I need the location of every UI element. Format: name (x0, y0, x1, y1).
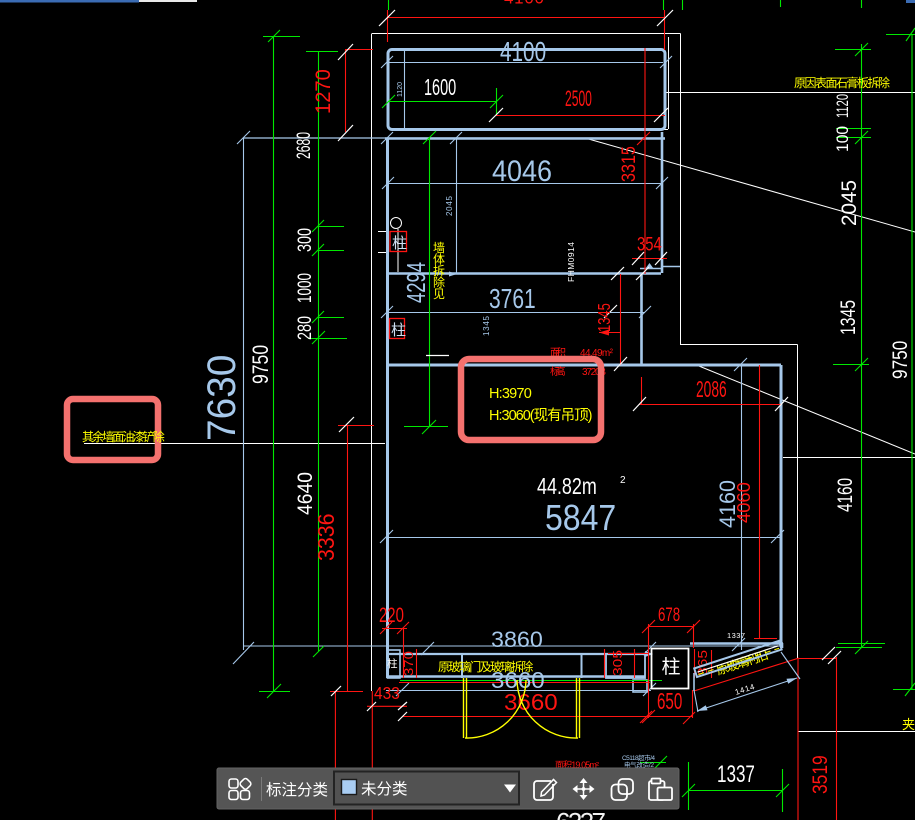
svg-text:44.82m: 44.82m (537, 474, 597, 500)
door threshold line y268 (640, 268, 661, 270)
red dim 365 ext b (711, 650, 713, 678)
dropdown box (334, 772, 519, 805)
grid line green x273 (273, 36, 275, 692)
wall white bottom right horizontal (798, 731, 915, 733)
red dim 305 ext b (634, 649, 636, 678)
svg-text:3519: 3519 (810, 755, 833, 794)
tilted leaf rect (694, 641, 781, 677)
svg-text:4160: 4160 (833, 478, 857, 512)
column box right (652, 649, 689, 689)
tick 7630 bottom (233, 642, 254, 664)
svg-text:1270: 1270 (312, 69, 335, 114)
dim 2086 red line (639, 404, 781, 406)
leaf yellow dashes (698, 648, 779, 674)
tick red4100 l (379, 10, 395, 26)
top edge green tick x682 (682, 0, 684, 10)
svg-text:未分类: 未分类 (361, 780, 408, 798)
red bar y638 (754, 638, 777, 640)
svg-text:3761: 3761 (489, 284, 536, 315)
dim 5847 line (386, 537, 781, 539)
tick 354 l (632, 252, 644, 265)
door jamb mid right (581, 654, 583, 678)
wall cyan sill top y648 (386, 653, 645, 655)
svg-text:3336: 3336 (313, 513, 339, 561)
dim 1337 ext left (688, 762, 690, 810)
top edge green tick x388 (388, 0, 390, 10)
wall cyan sill bottom y678 (386, 675, 645, 678)
tick 4100 left (381, 56, 393, 68)
door leaf left (463, 678, 465, 738)
wall white right vertical lower (797, 345, 799, 659)
svg-text:1120: 1120 (834, 94, 853, 118)
vestibule glass line (668, 37, 670, 129)
red ext 433 b (371, 691, 373, 820)
red bar y691 (330, 691, 363, 693)
green sill line (400, 680, 662, 682)
dim 3315 red line x645 (644, 48, 646, 274)
svg-text:2045: 2045 (838, 180, 861, 226)
red tick 678 l (642, 620, 655, 633)
wall white top horizontal (372, 33, 681, 35)
svg-text:678: 678 (658, 605, 680, 626)
svg-text:2045: 2045 (445, 195, 454, 216)
door jamb x611 (606, 654, 645, 678)
tick 3761 left (381, 306, 393, 318)
tick 3660red l (398, 712, 407, 721)
tick 5847 left (380, 530, 393, 543)
svg-text:1337: 1337 (717, 761, 755, 788)
red horizontal y658 (799, 658, 836, 660)
tick 4100 right (660, 56, 672, 68)
tick x318 y51 (306, 51, 338, 53)
svg-text:2680: 2680 (295, 132, 315, 159)
tick 2500 r (654, 108, 668, 122)
svg-text:柱: 柱 (392, 235, 407, 252)
dim 354 red line (632, 258, 667, 260)
marker box middle (461, 359, 601, 440)
dim 4046 line (388, 183, 662, 185)
tick 3860 b (643, 642, 656, 655)
cross x318 y651 (313, 646, 324, 657)
dim 3860 line (243, 645, 781, 647)
svg-text:1345: 1345 (836, 300, 860, 335)
tick wall y364 x620 (614, 357, 627, 371)
svg-text:墙体拆除见: 墙体拆除见 (433, 241, 445, 301)
svg-text:1345: 1345 (595, 303, 615, 332)
svg-text:354: 354 (637, 234, 662, 255)
svg-text:2086: 2086 (696, 378, 727, 403)
wall cyan right vertical x781 (780, 365, 783, 643)
white leader diagonal top (585, 138, 915, 232)
red tick 220 a (380, 622, 392, 634)
tick 5847 right (771, 530, 784, 543)
red corner y49 (345, 49, 373, 51)
svg-text:夹胶: 夹胶 (902, 717, 915, 732)
icon copy (612, 779, 634, 800)
svg-text:原玻璃门及玻璃拆除: 原玻璃门及玻璃拆除 (438, 659, 533, 674)
red 305 top line (608, 653, 648, 655)
door jamb left box (388, 650, 401, 678)
svg-text:4046: 4046 (492, 155, 552, 189)
svg-text:9750: 9750 (249, 345, 273, 384)
tick 7630 top (237, 131, 250, 144)
grid line green x861 (861, 44, 863, 647)
red ext x665 (664, 10, 666, 50)
tick x861 y643 (838, 643, 885, 645)
wall cyan left main vertical (386, 138, 389, 678)
tick x372 y688 (331, 686, 341, 696)
green tick above toolbar (640, 762, 666, 764)
door jamb mid left (461, 654, 463, 678)
red dim 678 line (648, 626, 693, 628)
white leader diagonal middle (694, 364, 915, 454)
wall cyan horizontal y365 (386, 364, 781, 367)
svg-text:柱: 柱 (662, 656, 681, 678)
vestibule rounded rect (388, 50, 665, 130)
red line x621 (620, 274, 622, 365)
red vertical x836 (836, 657, 838, 820)
red tick 3336 top (338, 425, 374, 427)
tick x861 y137 (836, 137, 871, 139)
svg-text:9750: 9750 (890, 341, 913, 379)
red tick 220 b (397, 622, 409, 634)
dim 1270 red line x345 (345, 50, 347, 133)
svg-text:300: 300 (294, 228, 315, 252)
tick 3761 right (639, 306, 651, 318)
tick x429 top (423, 131, 436, 144)
cross 1337 right (776, 784, 789, 797)
grid line green x912 (911, 34, 913, 689)
door jamb x645 (645, 651, 653, 657)
svg-text:其余墙面油漆铲除: 其余墙面油漆铲除 (82, 429, 165, 444)
svg-text:原因表面石膏板拆除: 原因表面石膏板拆除 (794, 75, 890, 90)
dim 4100 top red line (387, 17, 665, 19)
tilted dim line with arrows (694, 652, 800, 712)
tick tilted door (822, 647, 835, 660)
tick x318 y317 (318, 317, 344, 319)
svg-text:305: 305 (611, 650, 625, 676)
red tick 650 l (640, 711, 652, 723)
svg-text:2500: 2500 (565, 86, 592, 111)
cross x429 y427 (404, 426, 448, 428)
dim 4100 line (387, 62, 663, 64)
cross 1600 right (496, 88, 498, 115)
dim 7630 vertical line (243, 138, 245, 650)
svg-text:370: 370 (401, 651, 416, 676)
svg-text:4100: 4100 (504, 0, 544, 8)
svg-text:柱: 柱 (387, 657, 398, 670)
tick 433 r (398, 702, 407, 710)
column circle stem (397, 229, 399, 272)
dim 433 red line (367, 705, 407, 707)
svg-text:H:3970: H:3970 (489, 386, 532, 402)
tick 2086 l (633, 397, 646, 411)
dim 2045 vertical line (456, 138, 458, 273)
svg-text:650: 650 (657, 689, 682, 715)
tick red4100 r (657, 10, 673, 26)
dim 4160 vertical line (741, 364, 743, 650)
tick x318 y338 (308, 338, 347, 340)
red dim 365 ext a (694, 649, 696, 678)
wall stub a (378, 231, 386, 233)
svg-text:标注分类: 标注分类 (266, 781, 328, 799)
svg-text:1345: 1345 (482, 315, 491, 336)
tick 4046 left (382, 177, 394, 189)
svg-text:280: 280 (294, 316, 315, 340)
icon edit (534, 780, 557, 801)
tick 3860 c (732, 638, 745, 651)
tick x861 y128 (836, 128, 871, 130)
cross x912 bottom (893, 689, 915, 691)
white leader horizontal right top (665, 92, 915, 94)
red tick 678 r (687, 620, 700, 633)
column symbol 1 (390, 232, 407, 253)
top edge green tick x861 (861, 0, 863, 8)
toolbar background (217, 768, 679, 809)
toolbar separator (261, 777, 263, 801)
tick x318 y250 (318, 250, 344, 252)
wall stub b (378, 252, 386, 254)
tick x861 y49 (835, 49, 871, 51)
dim 3761 line (387, 312, 645, 314)
tick 3336 top (339, 417, 354, 432)
grid cross x273 bottom (259, 691, 290, 693)
svg-text:3660: 3660 (504, 690, 558, 715)
red ext 678 l (648, 624, 650, 718)
wall cyan right vertical upper room (661, 132, 664, 273)
column symbol 2 (390, 319, 407, 340)
dim 3336 red line x347 (347, 425, 349, 691)
browser top strip blue (0, 0, 139, 3)
svg-text:2: 2 (620, 475, 626, 486)
svg-text:433: 433 (374, 683, 400, 703)
svg-text:1000: 1000 (295, 273, 316, 303)
tilted ext lines (694, 690, 698, 712)
tick 4046 right (656, 177, 668, 189)
svg-text:标高:: 标高: (550, 365, 566, 378)
red tick 3660 r (642, 710, 655, 723)
red ext 2086 left (641, 377, 643, 404)
toolbar icon grid (229, 778, 252, 800)
browser top strip white (139, 0, 197, 2)
tick 3660 right (643, 683, 656, 696)
dim 2500 red line (496, 115, 665, 117)
red dim 220 line (382, 628, 407, 630)
wall white right vertical upper (680, 34, 682, 346)
tick 1270 top (338, 44, 353, 60)
icon move (573, 778, 595, 800)
wall white left vertical (371, 34, 373, 691)
grid tick x273 top (263, 36, 300, 38)
svg-text:1337: 1337 (727, 631, 745, 640)
tick 3860 a (421, 642, 434, 655)
tick 1600 left (382, 95, 395, 108)
red ext x387 (387, 10, 389, 42)
browser top strip blue right (906, 0, 915, 3)
wall cyan vertical x641 (640, 273, 643, 365)
tick x861 y364 (833, 364, 869, 366)
tick 1270 bottom (338, 125, 353, 141)
red tick 3315 top (637, 132, 650, 145)
door arc left (465, 680, 526, 738)
wall cyan stub y266 (662, 266, 680, 268)
red arrow 1345 bottom (599, 332, 621, 334)
dim 1600 line (388, 101, 496, 103)
tick 3761 x610 (604, 305, 617, 318)
tiny cyan annotation block (622, 753, 655, 769)
dim 3660 line (386, 690, 651, 692)
red ext 678 r (693, 624, 695, 648)
svg-text:4294: 4294 (402, 262, 431, 303)
svg-text:H:3060(现有吊顶): H:3060(现有吊顶) (489, 407, 592, 424)
tick wall y365 (734, 358, 747, 371)
white leader underline left box (84, 443, 385, 445)
svg-text:4640: 4640 (294, 472, 317, 515)
dim 1337 ext right (782, 769, 784, 812)
red dim 305 ext a (604, 649, 606, 678)
tick wall y273 x617 (611, 267, 624, 280)
dim 1120 vertical line (404, 50, 406, 129)
white stub x426 y355 (426, 355, 449, 357)
red ext 433 a (334, 691, 336, 820)
svg-text:3315: 3315 (618, 146, 640, 182)
tick 2500 l (489, 108, 503, 122)
red vertical x798 (797, 658, 799, 820)
red diagonal tilted door (694, 658, 799, 691)
svg-text:7630: 7630 (199, 355, 244, 441)
column circle (391, 218, 402, 229)
tick 3660 left (396, 683, 409, 696)
wall cyan below vestibule (243, 137, 665, 139)
icon paste (649, 779, 672, 801)
wall white step horizontal (681, 344, 798, 346)
small cyan box below sill (633, 680, 647, 692)
cross 1337 left (682, 784, 695, 797)
arrow 2045 bottom (449, 272, 457, 277)
door leaf right (576, 678, 578, 738)
door threshold arrow (646, 263, 654, 269)
svg-text:220: 220 (379, 604, 404, 627)
tick x318 y226 (318, 226, 344, 228)
leaf white center line (698, 646, 779, 672)
svg-text:100: 100 (833, 126, 852, 152)
dropdown swatch (342, 780, 357, 795)
grid line green x429 (429, 138, 431, 427)
svg-text:5847: 5847 (545, 498, 616, 538)
top edge green tick x663 (663, 0, 665, 10)
wall cyan mid horizontal y273 (386, 272, 661, 275)
svg-text:4100: 4100 (500, 37, 546, 68)
wall cyan upper small step x691 (690, 642, 783, 645)
tick 433 l (367, 702, 376, 711)
svg-text:FHM0914: FHM0914 (566, 242, 576, 282)
tick 2086 r (775, 397, 788, 411)
tick x836 y657 (828, 651, 841, 664)
tick 354 r (655, 252, 667, 265)
red ext 220 (403, 628, 405, 678)
top edge green tick x780 (780, 0, 782, 7)
tick vestibule left wall (381, 132, 393, 144)
svg-text:4060: 4060 (734, 482, 754, 523)
tick x912 top (886, 34, 915, 36)
cross x861 y647 (836, 647, 882, 649)
white leader horizontal right middle (783, 457, 915, 459)
grid line green x318 (318, 51, 320, 651)
svg-text:柱: 柱 (391, 322, 406, 339)
svg-text:3860: 3860 (491, 627, 543, 652)
dropdown arrow (504, 785, 516, 793)
tick 2045 top (450, 132, 462, 144)
dim 1337 green line (688, 790, 782, 792)
red tick 650 r (683, 712, 695, 724)
red sill line (399, 682, 650, 684)
svg-text:1600: 1600 (424, 76, 456, 101)
marker box left (67, 399, 158, 460)
red dim 3660 line (403, 716, 692, 718)
svg-text:1120: 1120 (397, 82, 404, 97)
red dim 370 vertical (416, 649, 418, 678)
svg-text:C5118超市/4: C5118超市/4 (622, 753, 655, 762)
tick wall y273 x642 (636, 267, 649, 280)
red line x759 (759, 365, 761, 638)
door arc right (517, 680, 578, 738)
